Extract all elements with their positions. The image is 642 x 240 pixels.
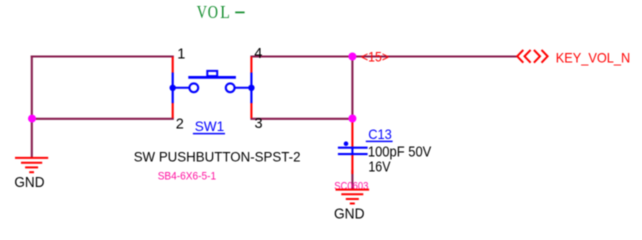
svg-text:SW1: SW1 (195, 118, 225, 134)
pin 1 stub (172, 57, 174, 73)
svg-text:C13: C13 (368, 126, 392, 142)
pin 2 stub (172, 103, 174, 118)
pin 3 stub (250, 103, 252, 118)
inter-plate stub (351, 148, 353, 154)
svg-text:2: 2 (176, 116, 184, 132)
capacitor C13 top pin stub (351, 121, 353, 148)
svg-text:16V: 16V (368, 159, 390, 175)
wire top-right horizontal to port (250, 55, 517, 57)
svg-text:SW PUSHBUTTON-SPST-2: SW PUSHBUTTON-SPST-2 (134, 148, 301, 164)
pin 4 stub (250, 57, 252, 73)
ground symbol left (15, 158, 48, 172)
left terminal dot (170, 85, 176, 91)
svg-text:GND: GND (334, 206, 365, 222)
bottom plate (338, 153, 368, 155)
svg-text:GND: GND (14, 175, 44, 191)
right terminal vertical (250, 73, 252, 104)
junction node at capacitor net (348, 115, 356, 123)
capacitor C13 plates (338, 141, 368, 154)
wire bottom-left horizontal (31, 118, 174, 120)
svg-text:SB4-6X6-5-1: SB4-6X6-5-1 (158, 170, 217, 182)
left lead (173, 87, 190, 89)
capacitor C13 bottom pin stub (351, 155, 353, 174)
svg-text:V: V (197, 2, 207, 22)
wire bottom-right horizontal (250, 118, 352, 120)
svg-text:<15>: <15> (361, 49, 389, 64)
wire left ground drop (31, 119, 33, 158)
right contact circle (226, 83, 235, 92)
svg-text:3: 3 (255, 116, 263, 132)
svg-text:L: L (220, 2, 230, 22)
wire right vertical (351, 57, 353, 119)
polarity dot (344, 141, 349, 146)
wire left vertical (31, 56, 33, 119)
right lead (235, 87, 252, 89)
svg-text:O: O (208, 2, 218, 22)
left terminal vertical (172, 73, 174, 104)
right terminal dot (248, 85, 254, 91)
svg-text:1: 1 (177, 47, 185, 63)
svg-text:KEY_VOL_N: KEY_VOL_N (556, 51, 630, 66)
off-page port symbol (517, 50, 547, 63)
top plate (338, 147, 368, 149)
svg-text:4: 4 (254, 46, 262, 62)
actuator button (207, 71, 217, 76)
ground symbol right (336, 190, 370, 204)
switch SW1 body (170, 71, 255, 103)
svg-text:100pF 50V: 100pF 50V (368, 145, 432, 161)
junction node at pin 4 net (348, 53, 356, 61)
wire top-left horizontal (31, 55, 174, 57)
wire capacitor to ground (351, 170, 353, 190)
left contact circle (189, 83, 198, 92)
junction node left (28, 115, 36, 123)
actuator bar (188, 76, 236, 79)
C13 underline (366, 140, 393, 142)
SW1 underline (193, 133, 225, 135)
